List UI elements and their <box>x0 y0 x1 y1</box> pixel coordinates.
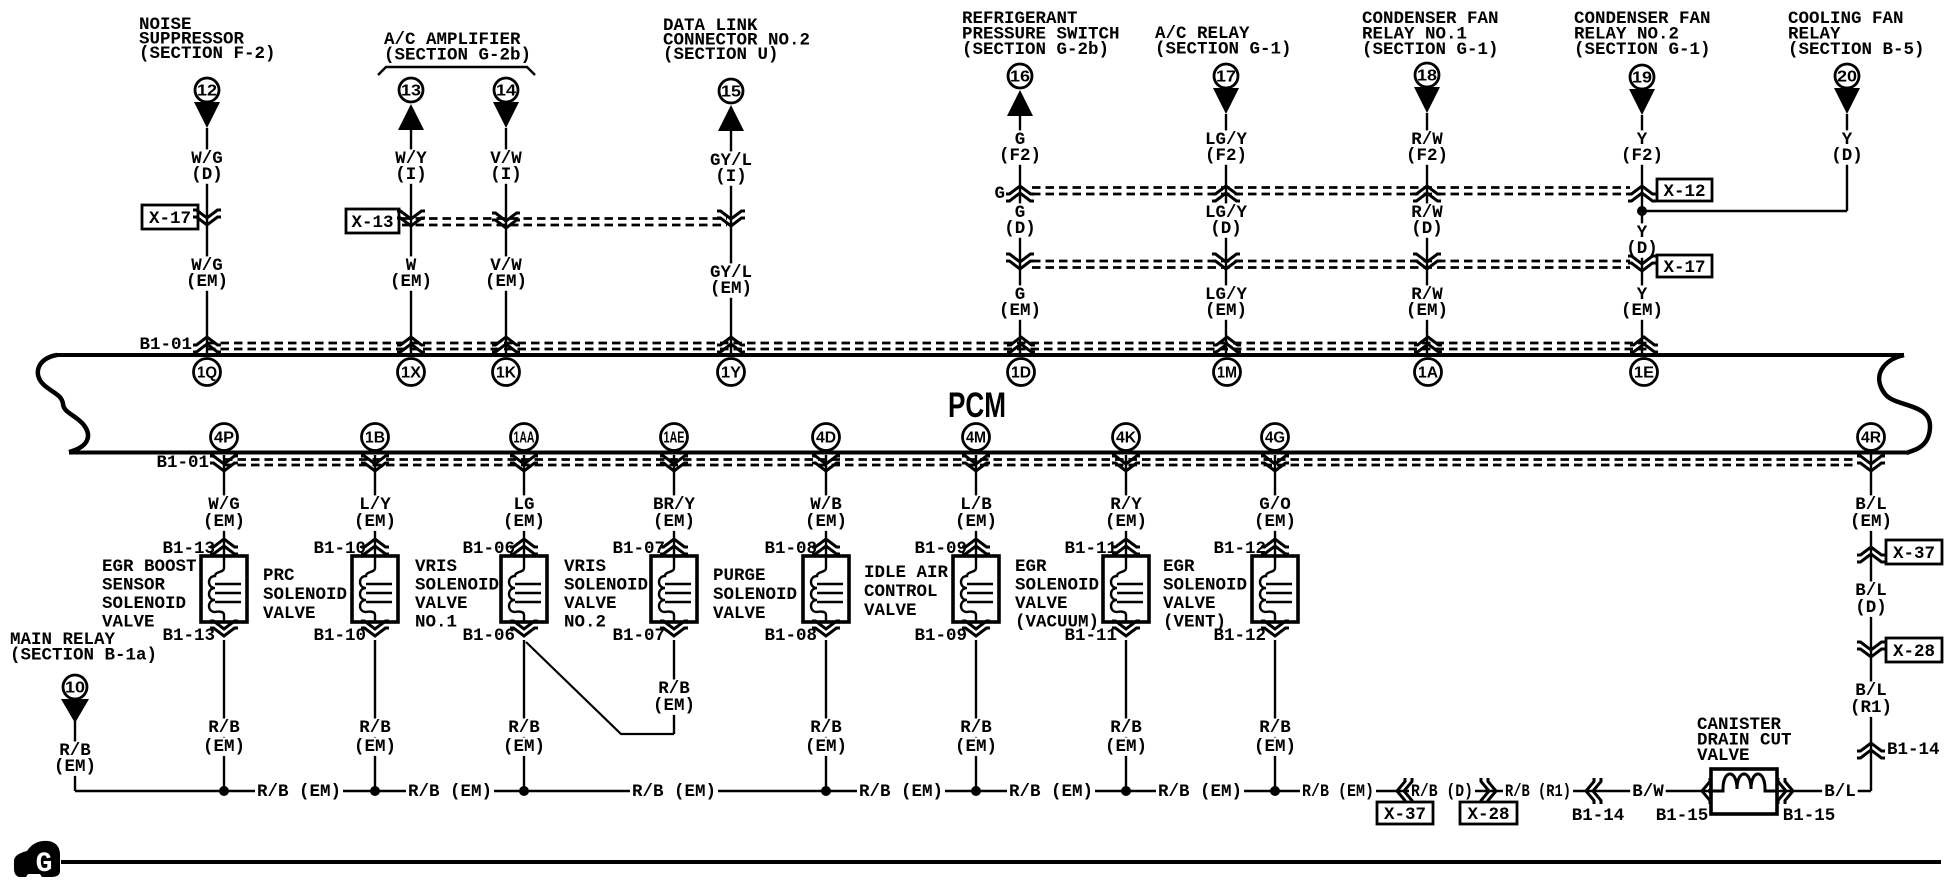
wire R/B from main relay <box>74 721 76 791</box>
svg-text:SOLENOID: SOLENOID <box>102 594 186 614</box>
label PCM <box>948 386 1006 425</box>
PCM pin 4K <box>1113 424 1140 451</box>
svg-text:(I): (I) <box>395 165 427 185</box>
svg-text:IDLE AIR: IDLE AIR <box>864 563 949 583</box>
svg-text:X-17: X-17 <box>1663 258 1705 278</box>
label B1-06 lower <box>462 626 515 646</box>
PCM pin 1Q <box>194 359 221 386</box>
connector B1-13 upper chevron <box>210 539 238 554</box>
svg-text:17: 17 <box>1216 69 1236 86</box>
label B1-14 right <box>1887 740 1940 760</box>
ground bus wire R/B (EM) <box>75 790 1871 792</box>
PCM pin 1AA <box>511 424 538 451</box>
arrow into noise suppressor wire <box>194 102 220 128</box>
svg-text:X-28: X-28 <box>1893 642 1935 662</box>
connector B1-10 upper chevron <box>361 539 389 554</box>
label B1-07 upper <box>612 539 665 559</box>
arrow out of wire 13 <box>398 104 424 130</box>
label R/B (EM) on ground bus at x=1051 <box>1007 782 1095 802</box>
label R/W (D) <box>1409 203 1445 239</box>
svg-text:VRIS: VRIS <box>415 557 457 577</box>
svg-text:(EM): (EM) <box>710 279 752 299</box>
connector circle 15 (data link connector) <box>719 79 743 103</box>
svg-text:(EM): (EM) <box>805 737 847 757</box>
svg-text:(EM): (EM) <box>390 272 432 292</box>
label B1-11 upper <box>1064 539 1117 559</box>
junction dot wire19/wire20 <box>1637 206 1647 216</box>
svg-text:(EM): (EM) <box>203 737 245 757</box>
connector B1-09 upper chevron <box>962 539 990 554</box>
connector B1-06 upper chevron <box>510 539 538 554</box>
solenoid coil purge solenoid valve <box>803 556 849 622</box>
label R/B (EM) on ground bus at x=901 <box>857 782 945 802</box>
connector chevron B1-14 on ground bus <box>1586 778 1601 804</box>
label GY/L (EM) col15 <box>708 263 754 299</box>
svg-text:(I): (I) <box>715 167 747 187</box>
PCM pin 1B bus exit chevron <box>361 456 389 471</box>
PCM pin 1D <box>1008 359 1035 386</box>
svg-text:1D: 1D <box>1011 365 1031 382</box>
label EGR SOLENOID VALVE (VACUUM) <box>1015 557 1099 633</box>
solenoid coil VRIS solenoid valve no.2 <box>651 556 697 622</box>
svg-text:(EM): (EM) <box>485 272 527 292</box>
connector circle 18 (condenser fan relay no.1) <box>1415 63 1439 87</box>
svg-text:(EM): (EM) <box>653 696 695 716</box>
svg-text:4R: 4R <box>1861 430 1881 447</box>
svg-text:VALVE: VALVE <box>864 601 917 621</box>
connector B1-08 upper chevron <box>812 539 840 554</box>
svg-text:EGR BOOST: EGR BOOST <box>102 557 197 577</box>
label R/B (EM) on ground bus at x=1338 <box>1300 782 1376 802</box>
svg-text:R/B: R/B <box>359 718 391 738</box>
junction dot ground bus x=1126 <box>1121 786 1131 796</box>
svg-text:(EM): (EM) <box>203 512 245 532</box>
arrow into main relay wire <box>61 699 89 723</box>
label LG/Y (EM) <box>1203 285 1249 321</box>
svg-text:(F2): (F2) <box>1621 146 1663 166</box>
wire R/B below B1-09 <box>975 640 977 791</box>
connector symbol wire18 row1 <box>1413 186 1441 201</box>
svg-text:PCM: PCM <box>948 386 1006 425</box>
connector B1-13 lower chevron <box>210 621 238 636</box>
wire W/G from PCM to solenoid <box>223 455 225 556</box>
wire Y column 20 down to junction <box>1846 114 1848 211</box>
connector X-17 on wire 12 <box>142 205 221 229</box>
label R/B (EM) on ground bus at x=450 <box>406 782 494 802</box>
wire joining VRIS no.2 to VRIS no.1 node <box>526 642 674 734</box>
svg-text:16: 16 <box>1010 69 1030 86</box>
label G (EM) <box>997 285 1043 321</box>
connector circle 17 (A/C relay) <box>1214 64 1238 88</box>
svg-text:G: G <box>36 849 53 880</box>
label B1-10 lower <box>313 626 366 646</box>
label B/L (D) <box>1853 581 1889 618</box>
arrow into wire 17 <box>1213 88 1239 114</box>
wire W/Y column 13 <box>410 130 412 353</box>
PCM pin 1K bus entry chevron <box>492 337 520 352</box>
label R/B (EM) main relay <box>52 741 98 777</box>
connector chevron B1-15 right of canister valve <box>1778 778 1793 804</box>
svg-text:4M: 4M <box>966 430 986 447</box>
svg-text:SOLENOID: SOLENOID <box>415 576 499 596</box>
PCM pin 1M <box>1214 359 1241 386</box>
svg-text:R/B: R/B <box>960 718 992 738</box>
svg-text:(EM): (EM) <box>1254 737 1296 757</box>
label B1-10 upper <box>313 539 366 559</box>
svg-text:(F2): (F2) <box>1205 146 1247 166</box>
connector circle 16 (refrigerant pressure switch) <box>1008 64 1032 88</box>
connector X-28 box bottom <box>1460 802 1517 825</box>
svg-text:B1-12: B1-12 <box>1213 626 1266 646</box>
label V/W (I) <box>488 149 524 185</box>
PCM pin 1E bus entry chevron <box>1630 337 1658 352</box>
svg-text:SOLENOID: SOLENOID <box>263 585 347 605</box>
svg-text:(SECTION G-2b): (SECTION G-2b) <box>384 46 531 66</box>
connector chevron B1-14 vertical <box>1857 743 1885 758</box>
svg-text:4G: 4G <box>1265 430 1285 447</box>
svg-text:(SECTION G-2b): (SECTION G-2b) <box>962 40 1109 60</box>
svg-text:1Y: 1Y <box>721 365 741 382</box>
PCM pin 1K <box>493 359 520 386</box>
PCM pin 4R <box>1858 424 1885 451</box>
connector X-17 box right <box>1657 255 1712 278</box>
svg-text:B/L: B/L <box>1824 782 1856 802</box>
svg-text:VALVE: VALVE <box>415 594 468 614</box>
svg-text:15: 15 <box>721 84 741 101</box>
svg-text:1B: 1B <box>365 430 385 447</box>
PCM pin 1E <box>1631 359 1658 386</box>
svg-text:SOLENOID: SOLENOID <box>564 576 648 596</box>
svg-text:1X: 1X <box>401 365 421 382</box>
wire LG from PCM to solenoid <box>523 455 525 556</box>
svg-text:10: 10 <box>65 680 85 697</box>
svg-text:(EM): (EM) <box>955 512 997 532</box>
PCM pin 1M bus entry chevron <box>1213 337 1241 352</box>
label R/B (EM) at x=524 <box>501 718 547 757</box>
label W (EM) col13 <box>388 256 434 292</box>
svg-text:R/B (EM): R/B (EM) <box>1009 782 1093 802</box>
svg-text:B1-11: B1-11 <box>1064 626 1117 646</box>
label B1-15 left <box>1656 806 1709 826</box>
wire BR/Y from PCM to solenoid <box>673 455 675 556</box>
connector circle 10 (main relay) <box>63 675 87 699</box>
label B1-09 lower <box>914 626 967 646</box>
label NOISE SUPPRESSOR title <box>139 15 276 64</box>
svg-text:(EM): (EM) <box>805 512 847 532</box>
label B/L (R1) <box>1848 681 1894 718</box>
label R/B (EM) at x=1126 <box>1103 718 1149 757</box>
svg-text:EGR: EGR <box>1163 557 1195 577</box>
label R/Y (EM) <box>1103 495 1149 532</box>
svg-text:B1-09: B1-09 <box>914 626 967 646</box>
arrow out of wire 16 <box>1007 90 1033 116</box>
svg-text:R/B (EM): R/B (EM) <box>632 782 716 802</box>
wire R/W column 18 <box>1426 113 1428 353</box>
svg-text:1E: 1E <box>1634 365 1654 382</box>
connector X-37 box right <box>1886 540 1942 564</box>
svg-text:20: 20 <box>1837 69 1857 86</box>
svg-text:4K: 4K <box>1116 430 1136 447</box>
label B1-08 lower <box>764 626 817 646</box>
svg-text:(EM): (EM) <box>186 272 228 292</box>
svg-text:SOLENOID: SOLENOID <box>1163 576 1247 596</box>
label LG (EM) <box>501 495 547 532</box>
svg-text:1Q: 1Q <box>197 365 217 382</box>
dashed harness row 1 (F2/D) <box>1032 188 1630 195</box>
wire G/O from PCM to solenoid <box>1274 455 1276 556</box>
svg-text:(SECTION U): (SECTION U) <box>663 45 779 65</box>
ground symbol (car body ground) <box>14 841 60 880</box>
label R/W (EM) <box>1404 285 1450 321</box>
PCM pin 1X <box>398 359 425 386</box>
svg-text:19: 19 <box>1632 70 1652 87</box>
label IDLE AIR CONTROL VALVE <box>864 563 949 621</box>
wire W/B from PCM to solenoid <box>825 455 827 556</box>
PCM pin 1A <box>1415 359 1442 386</box>
PCM pin 1AE bus exit chevron <box>660 456 688 471</box>
svg-text:X-17: X-17 <box>149 209 191 229</box>
label W/Y (I) <box>393 149 429 185</box>
svg-text:(D): (D) <box>191 165 223 185</box>
ground bus bottom line <box>61 860 1941 864</box>
label VRIS SOLENOID VALVE NO.1 <box>415 557 499 633</box>
connector B1-11 upper chevron <box>1112 539 1140 554</box>
label W/B (EM) <box>803 495 849 532</box>
svg-text:(EM): (EM) <box>1406 301 1448 321</box>
connector B1-07 lower chevron <box>660 621 688 636</box>
svg-text:R/B: R/B <box>1259 718 1291 738</box>
solenoid coil VRIS solenoid valve no.1 <box>501 556 547 622</box>
svg-text:B1-08: B1-08 <box>764 626 817 646</box>
connector symbol wire16 row1 <box>1006 186 1034 201</box>
label R/B (EM) on ground bus at x=674 <box>630 782 718 802</box>
junction dot ground bus x=375 <box>370 786 380 796</box>
svg-text:(EM): (EM) <box>1205 301 1247 321</box>
svg-text:(EM): (EM) <box>1105 512 1147 532</box>
svg-text:(SECTION G-1): (SECTION G-1) <box>1155 40 1292 60</box>
wire R/Y from PCM to solenoid <box>1125 455 1127 556</box>
wire G column 16 <box>1019 116 1021 353</box>
svg-text:(EM): (EM) <box>503 512 545 532</box>
connector circle 14 (A/C amplifier) <box>494 78 518 102</box>
label G at junction row <box>994 184 1005 204</box>
svg-text:1M: 1M <box>1217 365 1237 382</box>
connector chevron at X-37 right <box>1857 547 1885 562</box>
svg-text:13: 13 <box>401 83 421 100</box>
svg-text:R/B (EM): R/B (EM) <box>1158 782 1242 802</box>
label COOLING FAN RELAY title <box>1788 9 1925 60</box>
svg-text:VALVE: VALVE <box>1015 594 1068 614</box>
label R/B (D) on ground bus at x=1442 <box>1409 782 1475 802</box>
label B/W on ground bus at x=1648 <box>1630 782 1666 802</box>
connector X-12 box <box>1657 179 1712 202</box>
PCM pin 1B <box>362 424 389 451</box>
label B/L on ground bus at x=1840 <box>1822 782 1858 802</box>
solenoid coil EGR boost sensor solenoid valve <box>201 556 247 622</box>
label L/Y (EM) <box>352 495 398 532</box>
label A/C RELAY title <box>1155 24 1292 60</box>
PCM pin 1AA bus exit chevron <box>510 456 538 471</box>
svg-text:VALVE: VALVE <box>713 604 766 624</box>
label Y (F2) <box>1619 130 1665 166</box>
svg-text:R/B: R/B <box>208 718 240 738</box>
svg-text:B1-07: B1-07 <box>612 626 665 646</box>
label EGR SOLENOID VALVE (VENT) <box>1163 557 1247 633</box>
PCM pin 4M bus exit chevron <box>962 456 990 471</box>
PCM bottom edge line <box>69 451 1906 455</box>
PCM pin 4D bus exit chevron <box>812 456 840 471</box>
PCM pin 4R bus exit chevron <box>1857 456 1885 471</box>
svg-text:X-13: X-13 <box>351 213 393 233</box>
svg-text:4P: 4P <box>214 430 234 447</box>
connector X-37 box bottom <box>1377 802 1433 825</box>
label CANISTER DRAIN CUT VALVE <box>1697 715 1792 766</box>
connector X-28 box right <box>1886 638 1942 662</box>
svg-text:12: 12 <box>197 83 217 100</box>
svg-text:(SECTION F-2): (SECTION F-2) <box>139 44 276 64</box>
connector symbol wire19 row1 <box>1628 186 1656 201</box>
connector symbol wire18 row2 <box>1413 254 1441 269</box>
wire R/B below B1-10 <box>374 640 376 791</box>
label B1-08 upper <box>764 539 817 559</box>
svg-text:(EM): (EM) <box>354 512 396 532</box>
svg-text:1AE: 1AE <box>664 430 685 447</box>
junction dot ground bus x=826 <box>821 786 831 796</box>
connector chevron X-28 on ground bus <box>1481 778 1496 804</box>
svg-text:B1-15: B1-15 <box>1783 806 1836 826</box>
connector chevron X-37 on ground bus <box>1397 778 1412 804</box>
wire R/B below B1-11 <box>1125 640 1127 791</box>
svg-text:B1-14: B1-14 <box>1572 806 1625 826</box>
PCM top edge line <box>56 353 1904 357</box>
svg-text:VALVE: VALVE <box>1697 746 1750 766</box>
wire L/Y from PCM to solenoid <box>374 455 376 556</box>
connector symbol wire17 row2 <box>1212 254 1240 269</box>
svg-text:B1-14: B1-14 <box>1887 740 1940 760</box>
svg-text:X-37: X-37 <box>1893 544 1935 564</box>
label R/B (EM) on ground bus at x=1200 <box>1156 782 1244 802</box>
svg-text:(EM): (EM) <box>999 301 1041 321</box>
svg-text:R/B (EM): R/B (EM) <box>859 782 943 802</box>
connector symbol wire16 row2 <box>1006 254 1034 269</box>
label B1-12 upper <box>1213 539 1266 559</box>
svg-text:(EM): (EM) <box>653 512 695 532</box>
label R/B (EM) at x=976 <box>953 718 999 757</box>
wire R/B from VRIS no.2 to join <box>673 640 675 734</box>
connector symbol wire19 row2 <box>1628 256 1656 271</box>
svg-text:VRIS: VRIS <box>564 557 606 577</box>
connector B1-08 lower chevron <box>812 621 840 636</box>
connector B1-12 lower chevron <box>1261 621 1289 636</box>
connector chevron B1-15 left of canister valve <box>1702 778 1717 804</box>
wire R/B below B1-12 <box>1274 640 1276 791</box>
connector B1-09 lower chevron <box>962 621 990 636</box>
svg-text:G: G <box>994 184 1005 204</box>
PCM pin 4P <box>211 424 238 451</box>
label B1-07 lower <box>612 626 665 646</box>
label V/W (EM) col14 <box>483 256 529 292</box>
label W/G (D) <box>189 149 225 185</box>
label PURGE SOLENOID VALVE <box>713 566 797 624</box>
svg-text:(F2): (F2) <box>999 146 1041 166</box>
wire GY/L column 15 <box>730 131 732 353</box>
svg-text:(D): (D) <box>1004 219 1036 239</box>
connector circle 19 (condenser fan relay no.2) <box>1630 65 1654 89</box>
arrow into wire 19 <box>1629 89 1655 115</box>
connector symbol on wire 14 at X-13 harness row <box>492 213 520 228</box>
svg-text:(EM): (EM) <box>1621 301 1663 321</box>
label REFRIGERANT PRESSURE SWITCH title <box>962 9 1120 60</box>
arrow into wire 14 <box>493 102 519 128</box>
label A/C AMPLIFIER title <box>384 30 531 66</box>
label R/B (R1) on ground bus at x=1538 <box>1503 782 1573 802</box>
svg-text:EGR: EGR <box>1015 557 1047 577</box>
solenoid coil EGR solenoid valve (vent) <box>1252 556 1298 622</box>
svg-text:(I): (I) <box>490 165 522 185</box>
label R/B (EM) col4 <box>651 679 697 716</box>
PCM pin 4G <box>1262 424 1289 451</box>
svg-text:(D): (D) <box>1210 219 1242 239</box>
svg-text:(EM): (EM) <box>354 737 396 757</box>
solenoid coil idle air control valve <box>953 556 999 622</box>
PCM pin 1Y bus entry chevron <box>717 337 745 352</box>
svg-text:B1-10: B1-10 <box>313 626 366 646</box>
PCM pin 1AE <box>661 424 688 451</box>
svg-text:1K: 1K <box>496 365 516 382</box>
svg-text:(R1): (R1) <box>1850 698 1892 718</box>
connector circle 13 (A/C amplifier) <box>399 78 423 102</box>
label MAIN RELAY title <box>10 630 157 666</box>
svg-text:(EM): (EM) <box>1254 512 1296 532</box>
label LG/Y (F2) <box>1203 130 1249 166</box>
label R/B (EM) at x=1275 <box>1252 718 1298 757</box>
svg-text:(D): (D) <box>1411 219 1443 239</box>
label B/L (EM) <box>1848 495 1894 532</box>
label R/W (F2) <box>1404 130 1450 166</box>
svg-text:18: 18 <box>1417 68 1437 85</box>
PCM pin 1Y <box>718 359 745 386</box>
bracket over A/C amplifier pins <box>378 67 535 75</box>
wire R/B below B1-06 <box>523 640 525 791</box>
PCM pin 4K bus exit chevron <box>1112 456 1140 471</box>
svg-text:(D): (D) <box>1831 146 1863 166</box>
connector X-13 on wire 13 <box>346 209 425 233</box>
solenoid coil PRC solenoid valve <box>352 556 398 622</box>
junction dot ground bus x=524 <box>519 786 529 796</box>
svg-text:SOLENOID: SOLENOID <box>1015 576 1099 596</box>
svg-text:(EM): (EM) <box>955 737 997 757</box>
label L/B (EM) <box>953 495 999 532</box>
label LG/Y (D) <box>1203 203 1249 239</box>
wire R/B below B1-08 <box>825 640 827 791</box>
PCM pin 4D <box>813 424 840 451</box>
svg-text:(F2): (F2) <box>1406 146 1448 166</box>
dashed harness line X-13 row <box>402 219 727 226</box>
svg-text:CONTROL: CONTROL <box>864 582 938 602</box>
label DATA LINK CONNECTOR NO.2 title <box>663 16 810 65</box>
svg-text:SOLENOID: SOLENOID <box>713 585 797 605</box>
connector B1-07 upper chevron <box>660 539 688 554</box>
PCM pin 4P bus exit chevron <box>210 456 238 471</box>
wire from cooling fan relay to condenser fan relay no.2 node <box>1642 210 1847 212</box>
label R/B (EM) at x=826 <box>803 718 849 757</box>
svg-text:R/B (D): R/B (D) <box>1411 782 1473 802</box>
PCM right break squiggle <box>1879 355 1930 453</box>
svg-text:R/B (EM): R/B (EM) <box>1302 782 1374 802</box>
label R/B (EM) on ground bus at x=299 <box>255 782 343 802</box>
label B1-13 upper <box>162 539 215 559</box>
label CONDENSER FAN RELAY NO.1 title <box>1362 9 1499 60</box>
